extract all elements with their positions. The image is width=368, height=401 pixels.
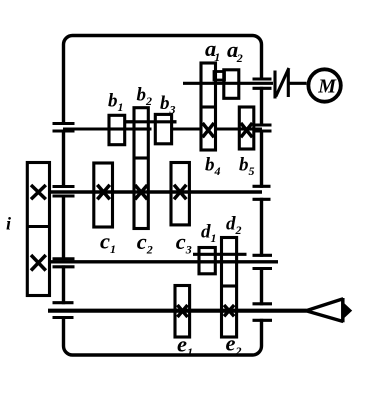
motor M circle xyxy=(308,69,340,101)
coupling left half xyxy=(273,71,276,99)
svg-text:M: M xyxy=(317,76,337,98)
svg-text:b1: b1 xyxy=(108,91,124,115)
svg-text:b3: b3 xyxy=(160,93,176,117)
shaft to motor xyxy=(290,82,307,85)
gear b3 xyxy=(155,114,171,143)
shaft V (output) xyxy=(48,309,307,313)
svg-text:b2: b2 xyxy=(137,85,153,109)
left wall bearing gap shaft III xyxy=(60,188,67,195)
gear block i (outside housing, two fixed gears) xyxy=(27,163,49,296)
svg-text:d1: d1 xyxy=(201,222,217,246)
shaft III bearing ticks left wall xyxy=(53,185,75,188)
shaft IV bearing ticks right wall xyxy=(253,254,273,257)
gear c2 X (fixed) xyxy=(135,185,147,199)
svg-text:b5: b5 xyxy=(239,155,255,179)
output arrow tip xyxy=(345,305,351,316)
shaft III xyxy=(47,190,262,193)
shaft IV upper short line through d1 d2 xyxy=(193,253,247,256)
shaft I bearing ticks right wall xyxy=(253,77,272,80)
gear block d2/e2 xyxy=(222,238,237,338)
shaft III bearing ticks right wall xyxy=(253,185,271,188)
right wall bearing gap shaft I xyxy=(258,81,265,87)
svg-text:e2: e2 xyxy=(226,331,242,359)
gear i lower X (fixed) xyxy=(31,255,46,271)
svg-text:d2: d2 xyxy=(226,214,242,238)
shaft II xyxy=(63,127,152,130)
gear e2 X (fixed) xyxy=(224,305,234,316)
output arrow cone xyxy=(306,299,343,311)
gear c1 xyxy=(94,163,113,227)
shaft I (input) xyxy=(183,82,273,85)
gear b5 X (fixed) xyxy=(241,123,253,137)
gear b1 xyxy=(109,115,125,144)
shaft II sliding-block connector line xyxy=(124,120,177,123)
svg-text:i: i xyxy=(6,214,11,234)
shaft IV xyxy=(47,260,278,263)
svg-text:b4: b4 xyxy=(205,155,221,179)
gear block b2/c2 xyxy=(134,108,148,229)
gear b4 X (fixed) xyxy=(203,123,215,137)
svg-text:a2: a2 xyxy=(227,37,243,65)
right wall bearing gap shaft II xyxy=(258,127,265,130)
right wall bearing gap shaft III xyxy=(258,188,265,198)
gear b5 xyxy=(239,107,254,149)
gear a2 xyxy=(224,70,239,99)
gear d1 xyxy=(199,248,215,274)
coupling right half xyxy=(287,70,290,97)
gear e1 X (fixed) xyxy=(177,305,187,317)
gear i upper X (fixed) xyxy=(31,185,46,199)
right wall bearing gap shaft IV xyxy=(258,257,265,267)
shaft V bearing ticks left wall xyxy=(53,301,74,304)
left wall bearing gap shaft IV xyxy=(60,260,67,265)
gear e1 xyxy=(175,286,190,338)
left wall bearing gap shaft V xyxy=(60,304,67,316)
shaft IV bearing ticks left wall xyxy=(53,257,75,260)
right wall bearing gap shaft V xyxy=(258,305,265,319)
gear c1 X (fixed) xyxy=(97,185,110,200)
svg-text:a1: a1 xyxy=(205,36,220,64)
shaft V bearing ticks right wall xyxy=(253,302,273,305)
gear c3 xyxy=(171,163,189,225)
shaft I through a1 xyxy=(201,82,216,85)
svg-text:c1: c1 xyxy=(100,229,116,257)
coupling slash xyxy=(276,68,289,97)
gear c3 X (fixed) xyxy=(174,185,186,200)
gear block a1/b4 on shafts I-II xyxy=(201,63,216,150)
svg-text:c2: c2 xyxy=(137,229,153,257)
svg-text:c3: c3 xyxy=(176,229,192,257)
connector a1-a2 xyxy=(214,72,225,81)
left wall bearing gap shaft II xyxy=(60,125,67,131)
housing frame (rounded rectangle) xyxy=(64,36,262,356)
shaft II bearing ticks left wall xyxy=(53,122,75,125)
shaft II bearing ticks right wall xyxy=(253,123,272,126)
